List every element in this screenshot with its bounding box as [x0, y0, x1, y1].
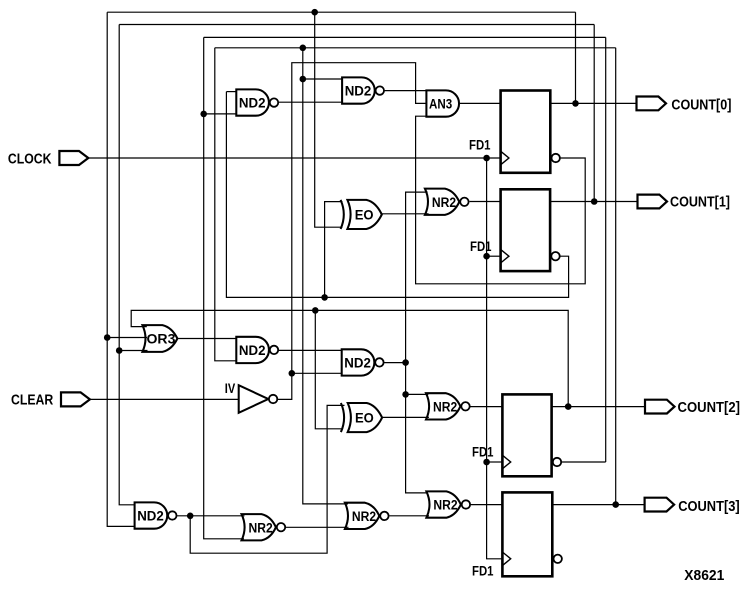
- wire Q2B tap to ND2-1 inputs: [204, 113, 237, 115]
- wire CLEARB tap to ND2-4 input B: [292, 372, 342, 374]
- xor EO U4: [341, 200, 382, 229]
- nand ND2 U1 (Q1B*Q2B): [236, 89, 278, 115]
- nor NR2 U15: [426, 491, 470, 517]
- wire CLOCK input line: [88, 157, 500, 159]
- nand ND2 U12: [135, 502, 177, 528]
- wire Q2 feedback line to OR3 input A: [131, 310, 568, 406]
- wire Q3 top rail: [215, 47, 616, 49]
- wire EO-1 out to NR2-1 input B: [382, 213, 429, 215]
- wire EO-1 input A from Q1B: [325, 202, 343, 298]
- svg-text:COUNT[1]: COUNT[1]: [670, 194, 730, 210]
- junction Q1B at EO-1: [321, 294, 328, 301]
- svg-text:NR2: NR2: [433, 400, 457, 416]
- junction COUNT0 feedback: [572, 100, 579, 107]
- svg-text:X8621: X8621: [684, 568, 724, 584]
- nand ND2 U7: [236, 337, 278, 363]
- svg-text:IV: IV: [225, 381, 236, 397]
- svg-text:ND2: ND2: [345, 84, 372, 100]
- svg-text:ND2: ND2: [344, 356, 371, 372]
- junction COUNT1 feedback: [591, 198, 598, 205]
- flip-flop FD1 U17 (bit1): [501, 189, 560, 271]
- wire Q3 tap to ND2-2 input A: [303, 78, 342, 80]
- svg-text:OR3: OR3: [147, 332, 176, 348]
- wire ND2-1 input A stub: [226, 91, 236, 93]
- wire Q1 rail left drop to ND2-5 input A: [119, 25, 134, 505]
- wire Q2B top rail: [204, 36, 606, 38]
- wire OR3 out to ND2-3 input A: [177, 338, 236, 340]
- junction NR2-5 input A tap: [402, 391, 409, 398]
- wire ND2-4 out: [384, 362, 406, 364]
- or OR3 U6: [142, 325, 177, 352]
- wire NR2-4 out to FD4 D: [471, 504, 503, 506]
- svg-text:EO: EO: [355, 411, 374, 427]
- wire NR2-1 out to FD2 D: [470, 201, 501, 203]
- wire FD3 Q to COUNT2: [552, 406, 645, 408]
- svg-text:COUNT[3]: COUNT[3]: [678, 499, 740, 515]
- svg-text:COUNT[0]: COUNT[0]: [671, 97, 731, 113]
- xor EO U10: [341, 403, 382, 432]
- svg-text:NR2: NR2: [432, 195, 456, 211]
- port COUNT[3]: [645, 498, 675, 512]
- wire Q2B rail right drop to FD3 QB: [605, 37, 607, 462]
- wire Q3 rail left drop to ND2-3 input B: [215, 48, 237, 361]
- wire CLOCK stub to FD3: [487, 461, 503, 463]
- junction Q0 rail branch: [311, 9, 318, 16]
- wire Q1 tap to OR3 input C: [119, 350, 147, 352]
- wire CLEAR input line: [90, 398, 239, 400]
- wire tap to NR2-5 input A: [406, 393, 429, 395]
- wire Q0 branch down to EO-1 input B: [315, 12, 343, 227]
- junction COUNT3 feedback: [612, 501, 619, 508]
- svg-text:NR2: NR2: [433, 498, 457, 514]
- wire Q2B rail left drop to NR2-2 input B: [204, 37, 244, 538]
- inverter IV U9: [239, 385, 278, 413]
- svg-text:FD1: FD1: [470, 238, 492, 254]
- wire ND2-1 out to ND2-2 input B: [279, 101, 343, 103]
- wire Q0 tap to OR3 input B: [107, 337, 147, 339]
- port COUNT[0]: [637, 97, 667, 111]
- wire Q0 rail right drop to COUNT0 node: [575, 12, 577, 103]
- junction OR3 input B tap: [104, 334, 111, 341]
- svg-text:COUNT[2]: COUNT[2]: [678, 400, 741, 416]
- and AN3 U3: [426, 90, 459, 116]
- nor NR2 U11: [426, 393, 470, 419]
- wire ND2-2 out to AN3 input A: [384, 90, 427, 92]
- junction CLEARB to ND2-4: [289, 370, 296, 377]
- svg-text:FD1: FD1: [469, 136, 491, 152]
- wire Q1 top rail: [119, 24, 594, 26]
- wire CLOCK stub to FD2: [487, 255, 501, 257]
- wire NR2-5 out to FD3 D: [469, 406, 503, 408]
- nand ND2 U8: [342, 349, 384, 375]
- wire Q3 branch down to NR2-3 input A: [303, 48, 348, 504]
- svg-text:ND2: ND2: [239, 343, 266, 359]
- flip-flop FD1 U18 (bit2): [502, 394, 561, 476]
- wire FD3 QB to Q2B rail: [561, 461, 606, 463]
- wire FD4 Q to COUNT3: [552, 504, 644, 506]
- junction ND2-5 out: [187, 513, 194, 520]
- nor NR2 U14: [345, 503, 389, 529]
- svg-text:NR2: NR2: [352, 509, 376, 525]
- nand ND2 U2: [342, 77, 384, 103]
- junction COUNT2 feedback: [565, 403, 572, 410]
- junction ND2-1 input tap: [200, 111, 207, 118]
- svg-text:ND2: ND2: [137, 509, 164, 525]
- wire ND2-5 out to NR2-2 input A: [177, 515, 245, 517]
- wire NR2-2 out to NR2-3 input B: [286, 526, 349, 528]
- port COUNT[2]: [645, 400, 675, 414]
- junction ND2-4 out: [402, 359, 409, 366]
- wire Q1 rail right drop to COUNT1 node: [593, 25, 595, 202]
- junction Q2 to EO-2: [312, 307, 319, 314]
- junction Q3 rail branch: [300, 45, 307, 52]
- wire Q3 rail right drop to COUNT3 node: [615, 48, 617, 505]
- wire NR2-3 out to NR2-4 input B: [390, 515, 430, 517]
- svg-text:NR2: NR2: [249, 520, 273, 536]
- svg-text:ND2: ND2: [239, 96, 266, 112]
- nor NR2 U5: [425, 189, 469, 215]
- wire EO-2 out to NR2-5 input B: [382, 416, 429, 418]
- svg-text:CLOCK: CLOCK: [8, 152, 52, 168]
- wire CLEARB net AN3 input B loop to IV out: [277, 63, 426, 400]
- junction ND2-2 input A tap: [300, 76, 307, 83]
- wire CLOCK vertical distribution: [487, 158, 503, 559]
- flip-flop FD1 U19 (bit3): [502, 492, 562, 576]
- junction CLOCK at FD3: [483, 459, 490, 466]
- port CLEAR: [61, 392, 90, 406]
- port CLOCK: [59, 151, 88, 165]
- svg-text:CLEAR: CLEAR: [11, 392, 54, 408]
- nor NR2 U13: [242, 514, 286, 540]
- wire Q0B net AN3 input C to FD1 QB: [416, 116, 586, 284]
- svg-text:FD1: FD1: [472, 562, 494, 578]
- svg-text:AN3: AN3: [429, 97, 452, 113]
- svg-text:EO: EO: [355, 208, 374, 224]
- junction CLOCK at FD1: [483, 155, 490, 162]
- wire Q2 tap to EO-2 input B: [315, 310, 343, 428]
- wire FD2 Q to COUNT1: [550, 201, 637, 203]
- wire FD1 Q to COUNT0: [550, 102, 636, 104]
- wire EO-2 input A from ND2-5 out: [190, 405, 344, 553]
- port COUNT[1]: [638, 195, 668, 209]
- wire Q0 rail left drop to ND2-5 input B: [107, 12, 134, 526]
- wire AN3 out to FD1 D: [460, 102, 501, 104]
- wire ND2-3 out to ND2-4 input A: [279, 349, 342, 351]
- junction OR3 input C tap: [116, 347, 123, 354]
- junction CLOCK at FD2: [483, 253, 490, 260]
- flip-flop FD1 U16 (bit0): [501, 91, 560, 173]
- wire ND2-4 out net vertical NR2-1 to NR2-4: [406, 192, 428, 493]
- svg-text:FD1: FD1: [472, 443, 494, 459]
- wire Q0 top rail: [107, 11, 575, 13]
- wire Q1B net ND2-1 stub to FD2 QB: [226, 92, 568, 298]
